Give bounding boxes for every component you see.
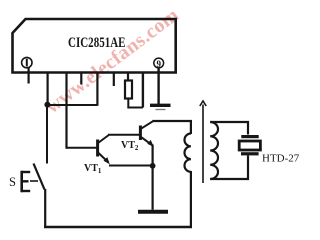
pin 1 lead bbox=[28, 68, 30, 84]
pin 9 lead bbox=[157, 68, 159, 105]
wire from junction down to switch bbox=[46, 105, 48, 164]
transistor VT2 collector stroke bbox=[141, 121, 153, 129]
pin 6 lead bbox=[113, 73, 115, 86]
svg-text:VT2: VT2 bbox=[121, 140, 139, 152]
junction node at pin2 wire bbox=[44, 102, 50, 108]
svg-text:9: 9 bbox=[156, 59, 161, 69]
ground under pin 9 bbox=[150, 105, 171, 109]
transistor VT1 collector stroke bbox=[98, 135, 109, 143]
svg-text:HTD-27: HTD-27 bbox=[262, 153, 300, 165]
switch S contact tick bbox=[30, 180, 38, 182]
piezo sounder HTD-27 bottom plate bbox=[241, 152, 259, 155]
pin 7 lead bbox=[127, 73, 129, 81]
wire VT1 collector to VT2 base bbox=[108, 134, 140, 136]
switch S fixed contact bracket bbox=[21, 171, 30, 192]
pin 8 lead bbox=[142, 73, 144, 108]
svg-text:CIC2851AE: CIC2851AE bbox=[68, 35, 126, 51]
transistor VT1 emitter stroke with arrow bbox=[98, 153, 110, 165]
wire secondary top to piezo bbox=[210, 122, 248, 135]
wire VT2 emitter down to ground bbox=[152, 145, 154, 210]
pin 3 lead (to VT1 base branch) bbox=[65, 73, 67, 149]
pin 5 lead bbox=[96, 73, 98, 106]
junction node emitters bbox=[150, 163, 156, 169]
ground at emitter node bbox=[138, 210, 168, 214]
pin 2 lead bbox=[46, 73, 48, 104]
svg-text:VT1: VT1 bbox=[84, 163, 102, 175]
pin 1 circled marker bbox=[22, 57, 32, 67]
pin 9 circled marker bbox=[154, 58, 164, 69]
pin 4 lead bbox=[80, 73, 82, 85]
transformer T1 core with arrow bbox=[200, 101, 206, 183]
transformer T1 secondary winding bbox=[210, 122, 218, 179]
bottom rail wire bbox=[44, 226, 192, 229]
wire VT2 collector to transformer primary top bbox=[152, 121, 191, 134]
wire piezo bottom to secondary bottom bbox=[210, 156, 248, 180]
wire pin3 branch to VT1 base bbox=[67, 147, 97, 149]
piezo sounder HTD-27 top plate bbox=[241, 135, 258, 138]
svg-text:S: S bbox=[9, 175, 16, 189]
IC U1 CIC2851AE package outline bbox=[13, 19, 176, 73]
transformer T1 primary winding bbox=[185, 134, 191, 172]
transistor VT2 base bar bbox=[139, 126, 142, 141]
piezo sounder HTD-27 element bbox=[239, 141, 260, 150]
wire bottom rail up to transformer primary bbox=[190, 171, 192, 228]
wire VT1 emitter to emitter node bbox=[109, 165, 153, 167]
wire pin2 to pin5 bbox=[48, 104, 98, 106]
resistor R1 bottom lead bbox=[128, 99, 143, 108]
resistor R1 (pin7 to pin8) body bbox=[125, 81, 132, 99]
wire switch to bottom rail bbox=[44, 189, 46, 227]
switch S moving arm bbox=[34, 164, 45, 190]
transistor VT1 base bar bbox=[96, 140, 99, 157]
svg-text:www.elecfans.com: www.elecfans.com bbox=[42, 4, 183, 118]
transistor VT2 emitter stroke with arrow bbox=[141, 137, 154, 147]
